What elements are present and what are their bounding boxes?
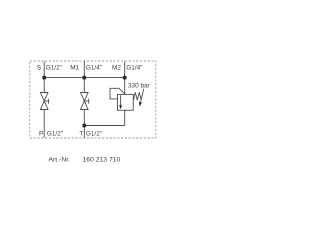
dashed enclosure border [30, 61, 156, 138]
node junction T outlet [82, 124, 86, 128]
node junction S bus [42, 76, 46, 80]
node junction M1 bus [82, 76, 86, 80]
wire S vertical upper [43, 61, 45, 92]
relief valve adjustment arrow [140, 89, 143, 103]
svg-text:G1/4": G1/4" [126, 64, 142, 71]
svg-text:160 213 710: 160 213 710 [83, 156, 121, 163]
shut-off valve V1 (S line) [40, 93, 48, 110]
svg-text:G1/2": G1/2" [46, 64, 62, 71]
svg-text:G1/2": G1/2" [86, 130, 102, 137]
svg-text:P: P [39, 130, 43, 137]
relief valve pilot line [110, 88, 125, 99]
shut-off valve V2 (M1 line) [81, 93, 89, 110]
svg-text:Art.-Nr.: Art.-Nr. [49, 156, 71, 163]
svg-text:M1: M1 [70, 64, 79, 71]
svg-text:S: S [37, 64, 41, 71]
wire horizontal bus S-M1-M2 [44, 77, 125, 79]
wire M2 vertical upper [124, 61, 126, 94]
wire relief outlet to T horizontal [84, 125, 124, 127]
wire M1 vertical lower (to port T) [83, 110, 85, 138]
svg-text:T: T [79, 130, 83, 137]
node junction M2 bus [123, 76, 127, 80]
svg-text:330 bar: 330 bar [128, 82, 151, 89]
relief valve spring [133, 92, 141, 100]
svg-text:G1/4": G1/4" [86, 64, 102, 71]
relief valve internal arrow [120, 95, 122, 105]
svg-text:M2: M2 [112, 64, 121, 71]
wire S vertical lower (to port P) [43, 110, 45, 138]
svg-text:G1/2": G1/2" [47, 130, 63, 137]
wire M1 vertical upper [83, 61, 85, 92]
pressure relief valve body [118, 95, 134, 111]
wire relief valve outlet vertical [124, 110, 126, 125]
